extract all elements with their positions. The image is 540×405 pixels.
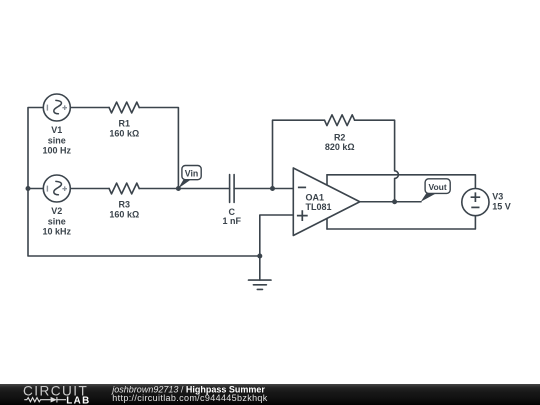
svg-text:R2: R2: [334, 133, 346, 143]
svg-text:TL081: TL081: [306, 202, 332, 212]
svg-text:R3: R3: [119, 200, 131, 210]
svg-text:sine: sine: [48, 216, 66, 226]
svg-text:LAB: LAB: [66, 396, 90, 405]
svg-text:V2: V2: [51, 206, 62, 216]
svg-text:100 Hz: 100 Hz: [43, 146, 72, 156]
svg-text:160 kΩ: 160 kΩ: [109, 209, 139, 219]
svg-text:OA1: OA1: [306, 193, 325, 203]
svg-text:V1: V1: [51, 125, 62, 135]
svg-text:R1: R1: [119, 119, 131, 129]
svg-text:Vout: Vout: [428, 182, 446, 192]
svg-text:820 kΩ: 820 kΩ: [325, 142, 355, 152]
svg-text:15 V: 15 V: [492, 202, 511, 212]
svg-text:10 kHz: 10 kHz: [43, 227, 72, 237]
svg-text:V3: V3: [492, 191, 503, 201]
svg-text:sine: sine: [48, 135, 66, 145]
svg-text:1 nF: 1 nF: [223, 216, 242, 226]
svg-text:160 kΩ: 160 kΩ: [109, 128, 139, 138]
svg-text:Vin: Vin: [185, 169, 199, 179]
svg-text:http://circuitlab.com/c944445b: http://circuitlab.com/c944445bzkhqk: [112, 393, 267, 403]
